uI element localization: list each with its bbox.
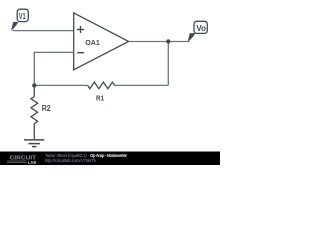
svg-text:V1: V1	[19, 12, 26, 21]
wire: R1 left lead to node A	[34, 84, 87, 86]
resistor R2	[31, 85, 51, 139]
wire: V1 to op-amp + input	[13, 30, 74, 32]
node: output junction	[166, 39, 170, 43]
op-amp OA1	[74, 13, 129, 70]
svg-text:http://circuitlab.com/c/7nkr7b: http://circuitlab.com/c/7nkr7b	[45, 158, 97, 163]
footer bar	[0, 152, 220, 166]
svg-text:LAB: LAB	[28, 160, 37, 165]
resistor R1	[88, 82, 115, 102]
svg-text:R1: R1	[96, 93, 104, 102]
footer CircuitLab logo	[7, 155, 37, 166]
ground	[24, 140, 44, 147]
svg-text:R2: R2	[42, 104, 52, 113]
wire: op-amp output	[129, 41, 190, 43]
flag V1	[11, 9, 28, 31]
wire: output down to feedback	[167, 42, 169, 86]
footer caption line 2 (url)	[45, 158, 97, 163]
svg-text:Vo: Vo	[196, 24, 206, 33]
wire: node A up and right to op-amp - input	[34, 52, 74, 85]
svg-text:OA1: OA1	[85, 38, 100, 47]
node A (inverting input / feedback junction)	[32, 83, 36, 87]
wire: feedback bottom right segment	[115, 84, 169, 86]
flag Vo	[188, 21, 208, 42]
footer caption line 1	[45, 153, 127, 158]
